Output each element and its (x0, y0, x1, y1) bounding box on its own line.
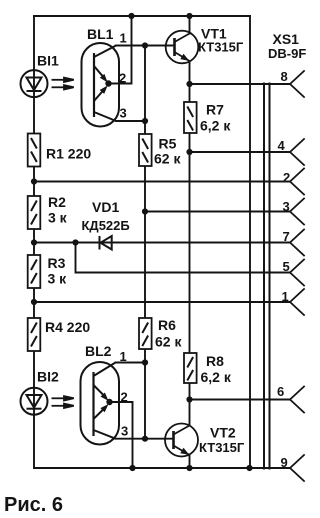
svg-text:BI2: BI2 (37, 369, 59, 385)
svg-text:1: 1 (120, 31, 127, 46)
svg-text:9: 9 (281, 455, 288, 470)
svg-text:62 к: 62 к (154, 151, 181, 167)
svg-text:R7: R7 (206, 102, 224, 118)
svg-text:7: 7 (283, 229, 290, 244)
svg-text:3 к: 3 к (48, 209, 68, 225)
svg-text:3 к: 3 к (48, 271, 68, 287)
svg-text:5: 5 (283, 259, 290, 274)
svg-text:6,2 к: 6,2 к (200, 118, 231, 134)
svg-text:DB-9F: DB-9F (268, 46, 306, 61)
svg-text:VT2: VT2 (210, 425, 236, 441)
svg-text:BI1: BI1 (37, 53, 59, 69)
svg-text:R1 220: R1 220 (46, 146, 91, 162)
svg-text:6: 6 (277, 384, 284, 399)
svg-text:6,2 к: 6,2 к (201, 369, 232, 385)
svg-text:VD1: VD1 (92, 199, 119, 215)
svg-text:R5: R5 (159, 135, 177, 151)
svg-text:3: 3 (283, 199, 290, 214)
svg-text:3: 3 (120, 106, 127, 121)
svg-text:4: 4 (278, 138, 286, 153)
svg-text:BL1: BL1 (87, 26, 114, 42)
svg-text:2: 2 (119, 71, 126, 86)
svg-text:1: 1 (282, 289, 289, 304)
svg-text:R3: R3 (48, 255, 66, 271)
svg-text:R6: R6 (158, 317, 176, 333)
svg-text:R2: R2 (48, 194, 66, 210)
svg-text:2: 2 (121, 389, 128, 404)
svg-text:R4 220: R4 220 (45, 319, 90, 335)
svg-text:КТ315Г: КТ315Г (198, 40, 244, 55)
svg-text:КД522Б: КД522Б (82, 218, 130, 233)
svg-text:R8: R8 (206, 353, 224, 369)
svg-text:BL2: BL2 (85, 343, 112, 359)
svg-text:8: 8 (281, 69, 288, 84)
svg-text:62 к: 62 к (155, 333, 182, 349)
svg-text:XS1: XS1 (273, 31, 300, 47)
svg-text:1: 1 (120, 349, 127, 364)
svg-text:2: 2 (283, 170, 290, 185)
svg-text:КТ315Г: КТ315Г (199, 440, 245, 455)
svg-text:3: 3 (121, 424, 128, 439)
svg-text:Рис. 6: Рис. 6 (4, 494, 63, 516)
